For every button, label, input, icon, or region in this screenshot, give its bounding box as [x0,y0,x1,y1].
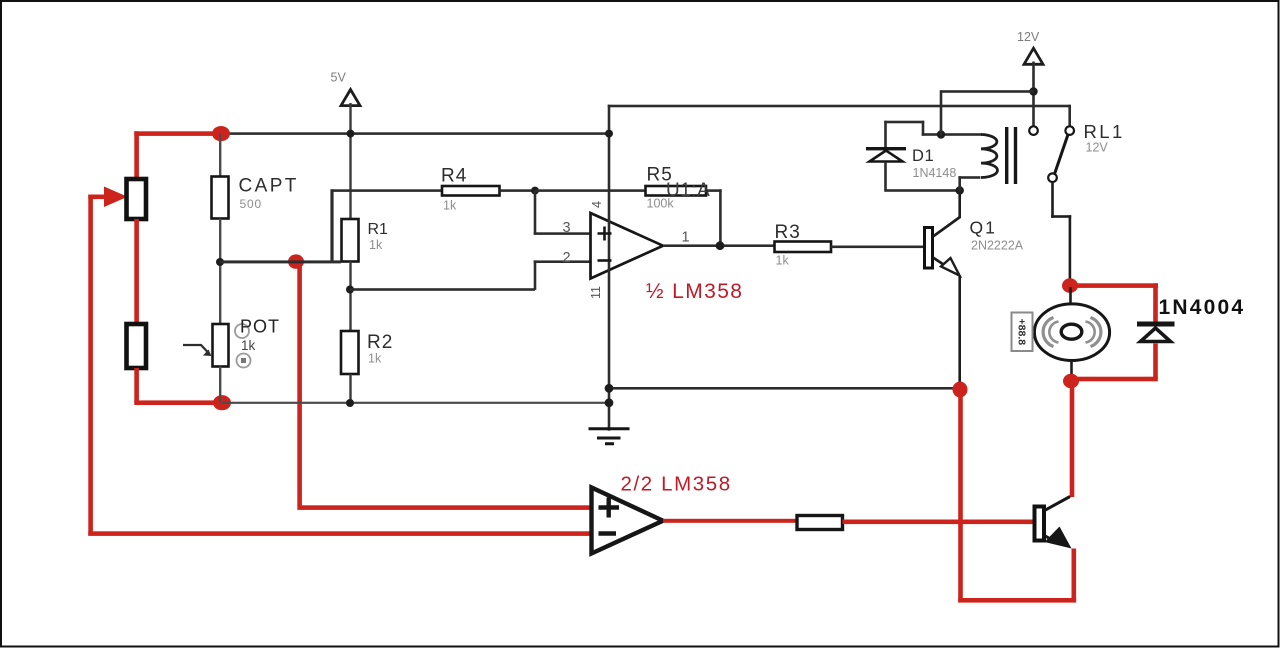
wire R5 left lead [535,189,646,192]
svg-text:RL1: RL1 [1084,121,1125,142]
resistor output (unlabeled) [797,516,843,530]
svg-text:12V: 12V [1017,30,1040,44]
wire D1 top step [884,121,924,124]
relay RL1 coil [981,135,997,178]
svg-text:R1: R1 [368,221,389,238]
power 12V arrow [1024,48,1043,64]
wire red bottom horizontal [958,598,1076,603]
diode D1 triangle [870,151,903,162]
resistor left upper (thick) [127,179,147,219]
svg-text:D1: D1 [912,147,934,165]
wire node y262 horizontal [220,260,341,263]
wire red top-left vertical lead [134,131,139,179]
wire ground rail y388 [609,387,956,390]
wire red below left lower resistor [134,368,139,403]
wire 12V stem [1032,62,1035,127]
wire R1 bottom lead [349,262,351,332]
node junction R1/R2 [346,286,354,294]
wire Q1 emitter vertical down [958,276,961,385]
transistor Q1 collector diagonal [933,217,960,237]
diode D1 cathode bar [866,147,906,150]
wire red opamp2 output [663,519,797,523]
op-amp 2 plus sign [599,498,620,518]
svg-text:4: 4 [590,201,604,208]
wire D1 bottom horizontal [884,189,960,192]
diode 1N4004 cathode bar [1137,322,1175,327]
wire red Q2 emitter down [1072,549,1077,603]
power 5V arrow symbol [341,90,360,106]
resistor left lower (thick) [127,324,147,368]
op-amp power column vertical wire [608,105,611,431]
resistor R1 [342,219,359,262]
svg-text:2: 2 [563,250,571,266]
wire red mid vertical from node to opamp2 [297,262,302,506]
wire CAPT bottom lead down to POT [219,219,221,325]
node junction relay-top [937,130,945,138]
resistor R4 [442,186,500,196]
resistor R3 [775,242,832,253]
wire motor top lead [1069,287,1072,305]
wire POT bottom lead [219,367,221,403]
svg-text:1k: 1k [368,352,382,366]
svg-text:1k: 1k [443,199,457,213]
svg-text:1N4004: 1N4004 [1159,296,1246,319]
svg-text:Q1: Q1 [970,218,997,238]
svg-text:R2: R2 [367,332,393,353]
svg-text:R3: R3 [775,222,801,243]
wire plus input branch [534,191,537,235]
node junction CAPT/POT [216,258,224,266]
wire red to Q2 base [843,520,1035,525]
wire top rail y106 to relay switch [608,105,1071,108]
svg-text:2N2222A: 2N2222A [971,239,1024,253]
op-amp 2 minus sign [599,531,617,535]
relay switch blade [1055,135,1069,175]
svg-text:2/2 LM358: 2/2 LM358 [621,473,732,496]
wire 5V arrow stem / R1 top lead [349,103,351,219]
wire red 1N4004 bottom horizontal to motor [1071,377,1158,382]
potentiometer POT body [213,324,229,367]
svg-text:1k: 1k [369,238,383,252]
wire 5V rail horizontal [219,132,610,135]
svg-text:5V: 5V [331,71,347,85]
diode D1 top lead [884,121,887,149]
transistor Q2 emitter diagonal [1045,536,1059,544]
wire red between left resistors [134,219,139,324]
svg-text:U1:A: U1:A [666,180,710,201]
resistor R5 [646,186,707,196]
op-amp U1 triangle [591,213,664,279]
potentiometer wiper arrow [183,345,209,354]
node junction output/feedback [716,241,725,250]
wire red motor bottom to Q2 collector [1070,381,1075,497]
svg-text:R4: R4 [441,166,467,187]
wire R2 bottom lead [349,374,351,403]
diode 1N4004 triangle [1141,328,1171,342]
op-amp minus sign [598,259,612,262]
node junction pot line [605,398,614,407]
node red dot CAPT-bottom branch [288,254,304,268]
svg-text:12V: 12V [1086,141,1109,155]
node red dot emitter/ground rail [953,382,968,398]
motor display box [1012,313,1033,352]
wire opamp1 output [663,244,775,247]
wire R5 right lead + feedback vertical [706,189,722,192]
node junction 5V rail / R1 [347,130,355,138]
label POT pin circle top [235,324,249,338]
wire R3 to Q1 base [831,246,924,249]
red arrowhead into sensor resistor [104,187,128,208]
wire R4 left lead [331,189,443,192]
node junction ground rail [605,384,614,393]
transistor Q1 emitter diagonal [933,258,957,274]
wire red opamp2 plus input horizontal [297,505,591,510]
wire red opamp2 minus input horizontal [88,531,591,536]
transistor Q2 emitter arrow (filled) [1045,527,1072,549]
wire red 1N4004 top vertical [1153,283,1158,323]
svg-text:POT: POT [240,317,280,337]
motor body circle [1034,304,1109,361]
label POT pin circle bottom [237,354,251,368]
motor left arcs [1043,318,1053,347]
wire relay top to 12V [941,90,1034,93]
motor inner ellipse [1061,324,1082,339]
resistor R2 [341,331,359,374]
wire node line y403 to ground column [222,402,609,404]
transistor Q2 base bar [1035,507,1045,541]
svg-text:1k: 1k [776,254,790,268]
node red dot motor bottom [1063,374,1079,389]
resistor CAPT [212,177,229,219]
svg-text:11: 11 [589,286,603,299]
relay contact circle lower [1048,173,1057,182]
node junction R4/R5/+in [531,187,539,195]
transistor Q1 base bar [925,228,933,269]
wire coil bottom lead [958,176,980,179]
svg-text:½ LM358: ½ LM358 [646,280,743,303]
node junction 5V/opamp column [605,130,613,138]
wire switch feed vertical [1068,105,1071,127]
op-amp plus sign [598,227,612,241]
diode D1 bottom lead [884,162,887,190]
transistor Q2 collector diagonal [1045,497,1071,511]
wire red 1N4004 bottom vertical [1153,344,1158,380]
svg-text:CAPT: CAPT [239,176,299,197]
wire red vertical up to ground-rail dot [958,390,963,603]
wire minus input branch [534,260,537,290]
wire red left top horizontal to arrow [88,195,105,200]
svg-text:3: 3 [563,220,571,236]
wire CAPT top lead [219,134,221,177]
node junction 12V/relay-top [1029,87,1037,95]
wire R1R2 node to opamp column [350,288,535,291]
wire red motor-top to 1N4004 [1070,283,1158,288]
transistor Q1 emitter arrow (open) [941,258,960,276]
wire red left vertical [88,195,93,536]
wire red bottom-left horizontal to junction [134,400,222,405]
op-amp 2 triangle [592,488,664,554]
node junction R2 bottom [346,399,354,407]
svg-text:1N4148: 1N4148 [913,166,957,180]
relay contact circle right [1065,126,1074,135]
svg-text:+88.8: +88.8 [1015,319,1027,346]
wire vertical x332 up to R4 line [330,189,333,262]
node red dot top-left [212,126,230,141]
node red dot motor top [1062,278,1078,293]
node junction D1/Q1 collector [956,186,964,194]
wire red top-left corner horizontal [134,131,221,136]
wire R4 right lead [500,189,537,192]
relay core bars [1005,127,1008,184]
node red dot bottom-left [213,395,231,410]
wire from contact down with step [1051,182,1054,218]
wire motor bottom lead [1070,361,1073,376]
svg-text:1k: 1k [241,338,256,353]
svg-text:1: 1 [682,230,690,246]
svg-text:500: 500 [240,197,262,211]
motor right arcs [1091,318,1101,347]
ground symbol [589,429,630,444]
wire Q1 collector vertical [958,191,961,219]
relay contact circle left [1029,126,1038,135]
